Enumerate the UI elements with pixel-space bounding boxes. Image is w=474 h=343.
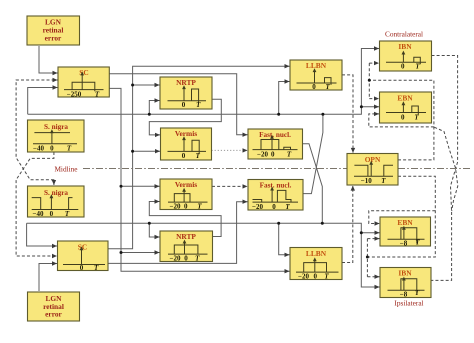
block LGN retinal error (bottom) <box>28 292 80 321</box>
svg-text:S. nigra: S. nigra <box>44 189 68 197</box>
svg-text:0: 0 <box>314 272 318 280</box>
block LGN retinal error (top) <box>27 16 80 45</box>
junction node bus-bottom / NRTP-bottom tap <box>148 222 151 225</box>
wire dashed branch to IBN-top input 2 <box>369 61 379 65</box>
wire SC-top output 1 to Fast.nucl-top input 1 <box>109 74 247 137</box>
svg-text:−20: −20 <box>170 254 181 262</box>
svg-text:OPN: OPN <box>365 155 381 164</box>
wire bottom bus left end down into SC-bottom input 1 <box>27 223 57 248</box>
svg-text:SC: SC <box>79 68 88 77</box>
svg-text:0: 0 <box>50 210 54 218</box>
wire LLBN-top dashed to OPN top <box>342 75 355 153</box>
block LLBN (bottom) <box>290 248 342 281</box>
svg-text:0: 0 <box>312 83 316 91</box>
svg-text:−250: −250 <box>67 90 82 98</box>
svg-text:−20: −20 <box>298 272 309 280</box>
svg-text:−8: −8 <box>400 290 408 298</box>
svg-text:Midline: Midline <box>54 164 77 173</box>
svg-text:NRTP: NRTP <box>176 232 196 241</box>
svg-text:−20: −20 <box>257 151 268 159</box>
svg-text:−8: −8 <box>400 239 408 247</box>
svg-text:EBN: EBN <box>397 93 413 102</box>
svg-text:−40: −40 <box>33 210 44 218</box>
wire dashed branch to EBN-bottom input 3 <box>367 236 379 240</box>
wire Fast.nucl-bottom output crossing midline into top bus <box>303 114 323 193</box>
wire S.nigra-top dashed crossing to SC-bottom input 2 <box>16 152 57 258</box>
block NRTP (bottom) <box>160 231 213 262</box>
wire top feedback bus <box>28 107 362 115</box>
svg-text:S. nigra: S. nigra <box>44 123 68 131</box>
svg-text:EBN: EBN <box>397 218 413 227</box>
wire NRTP-top output loop to Vermis-top input 1 <box>149 99 221 137</box>
svg-text:T: T <box>287 151 292 159</box>
wire midline dash-dot left segment <box>83 168 347 170</box>
svg-text:T: T <box>326 83 331 91</box>
block IBN (top, contralateral) <box>380 41 432 71</box>
svg-text:Contralateral: Contralateral <box>385 29 423 38</box>
block EBN (top, contralateral) <box>380 92 432 123</box>
junction node SC-bottom riser / NRTP-top tap <box>131 84 134 87</box>
wire bus riser to IBN-bottom input 1 <box>361 233 379 290</box>
block Fast. nucl. (top) <box>248 129 303 159</box>
svg-text:T: T <box>195 254 200 262</box>
block SC superior colliculus (bottom) <box>58 241 109 272</box>
wire SC-bottom output 2 to Fast.nucl-bottom input 2 <box>108 200 248 264</box>
block Vermis (top) <box>161 128 212 160</box>
junction node bus-bottom / LLBN-bottom tap <box>277 222 280 225</box>
wire LLBN-bottom dashed to OPN bottom <box>342 186 355 263</box>
svg-text:T: T <box>414 114 419 122</box>
svg-text:T: T <box>415 289 420 297</box>
svg-text:0: 0 <box>401 114 405 122</box>
wire OPN dashed riser at EBN-top left <box>368 63 370 99</box>
svg-text:−10: −10 <box>361 177 372 185</box>
svg-text:T: T <box>196 101 201 109</box>
wire S.nigra-bottom dashed crossing to SC-top input 2 <box>16 78 57 185</box>
wire OPN dashed riser at EBN-bottom left <box>366 239 368 277</box>
wire OPN dashed gating path above EBN-top <box>369 80 434 160</box>
svg-text:T: T <box>197 202 202 210</box>
wire IBN-top dashed crossing down to IBN-bottom <box>431 56 457 281</box>
svg-text:0: 0 <box>401 63 405 71</box>
svg-text:Vermis: Vermis <box>175 129 197 138</box>
svg-text:−20: −20 <box>170 202 181 210</box>
svg-text:T: T <box>285 203 290 211</box>
svg-text:Ipsilateral: Ipsilateral <box>394 299 423 308</box>
block LLBN (top) <box>290 60 342 91</box>
wire Vermis-top dotted to Fast.nucl-top input 2 <box>212 148 248 152</box>
block Fast. nucl. (bottom) <box>248 180 303 211</box>
svg-text:IBN: IBN <box>398 42 412 51</box>
svg-text:T: T <box>324 272 329 280</box>
wire bus tap to NRTP-top input 2 <box>149 98 159 114</box>
wire tap to NRTP-top input 1 <box>133 83 160 87</box>
svg-text:LLBN: LLBN <box>306 61 327 70</box>
wire bus tap up to LLBN-top input 2 <box>279 79 290 114</box>
svg-text:T: T <box>95 90 100 98</box>
block IBN (bottom, ipsilateral) <box>380 268 431 299</box>
junction node riser / EBN-bottom branch <box>360 231 363 234</box>
block S. nigra (bottom) <box>28 186 85 218</box>
svg-text:−20: −20 <box>252 203 263 211</box>
svg-text:error: error <box>45 310 62 319</box>
wire dashed branch to IBN-bottom input 2 <box>367 275 379 279</box>
svg-text:T: T <box>381 177 386 185</box>
wire bus tap down to LLBN-bottom input 2 <box>279 223 290 257</box>
junction node SC-top dropper / NRTP-bottom tap <box>120 251 123 254</box>
svg-text:LLBN: LLBN <box>306 249 327 258</box>
svg-text:0: 0 <box>182 101 186 109</box>
junction node riser / EBN-top branch <box>360 105 363 108</box>
svg-text:0: 0 <box>184 254 188 262</box>
svg-text:T: T <box>94 264 99 272</box>
wire bus riser to IBN-top input 1 <box>361 46 379 106</box>
wire bus branch to EBN-bottom input 2 <box>361 231 379 235</box>
wire tap to NRTP-bottom input 2 <box>121 250 160 254</box>
junction node OPN dashed tee (top) <box>368 79 371 82</box>
svg-text:T: T <box>196 152 201 160</box>
wire bus tap to NRTP-bottom input 1 <box>149 223 159 239</box>
svg-text:T: T <box>415 238 420 246</box>
svg-text:0: 0 <box>80 264 84 272</box>
block S. nigra (top) <box>28 120 85 153</box>
svg-text:0: 0 <box>182 152 186 160</box>
wire dashed branch to EBN-bottom input 1 <box>369 211 436 226</box>
junction node bus-top / LLBN-top tap <box>277 113 280 116</box>
wire IBN-bottom dashed crossing up toward EBN-top loop <box>434 127 458 211</box>
svg-text:T: T <box>65 210 70 218</box>
svg-text:−40: −40 <box>33 145 44 153</box>
junction node SC-bottom riser / Vermis-top tap <box>131 150 134 153</box>
wire OPN dashed gating path below EBN-bottom <box>367 176 435 257</box>
svg-text:0: 0 <box>50 145 54 153</box>
wire bottom feedback bus <box>27 223 362 233</box>
svg-text:error: error <box>45 33 62 42</box>
svg-text:0: 0 <box>184 202 188 210</box>
wire bus branch to EBN-top input 2 <box>361 105 379 109</box>
junction node SC-top dropper / Vermis-bottom tap <box>120 185 123 188</box>
svg-text:0: 0 <box>271 151 275 159</box>
svg-text:0: 0 <box>272 203 276 211</box>
junction node bus-top / NRTP-top tap <box>148 113 151 116</box>
block SC superior colliculus (top) <box>58 67 109 98</box>
junction node OPN dashed tee (bottom) <box>366 256 369 259</box>
junction node bus-top / Fast-bottom crossing join <box>321 113 324 116</box>
svg-text:T: T <box>415 63 420 71</box>
block EBN (bottom, ipsilateral) <box>380 217 431 247</box>
wire LGN-bottom output up to SC-bottom input 3 <box>39 261 57 291</box>
wire Fast.nucl-top output crossing midline into bottom bus <box>303 144 323 224</box>
wire Vermis-bottom dashed to Fast.nucl-bottom input 1 <box>212 184 248 188</box>
wire tap to Vermis-bottom input 1 <box>121 184 160 188</box>
svg-text:Fast. nucl.: Fast. nucl. <box>260 182 292 190</box>
wire top feedback bus left end up into SC-top input 3 <box>28 85 58 114</box>
wire dashed branch to EBN-top input 3 <box>369 112 434 127</box>
wire dashed branch to EBN-top input 1 <box>369 96 379 100</box>
block OPN omnipause neurons <box>347 154 398 186</box>
junction node bus-bottom / Fast-top crossing join <box>321 222 324 225</box>
svg-text:T: T <box>67 145 72 153</box>
svg-text:Fast. nucl.: Fast. nucl. <box>259 131 291 139</box>
block NRTP (top) <box>160 77 212 109</box>
svg-text:IBN: IBN <box>398 269 412 278</box>
block Vermis (bottom) <box>160 179 212 210</box>
svg-text:NRTP: NRTP <box>176 78 196 87</box>
wire LGN-top output down to SC-top input 1 <box>39 46 58 75</box>
wire NRTP-bottom output loop to Vermis-bottom input 2 <box>149 199 221 236</box>
svg-text:Vermis: Vermis <box>175 180 197 189</box>
wire midline dash-dot right segment <box>398 168 470 170</box>
wire tap to Vermis-top input 2 <box>133 149 160 153</box>
wire SC-bottom output 1 crossing up to LLBN-top input 1 <box>108 64 290 249</box>
wire SC-top output 2 crossing down to LLBN-bottom input 1 <box>109 88 289 273</box>
